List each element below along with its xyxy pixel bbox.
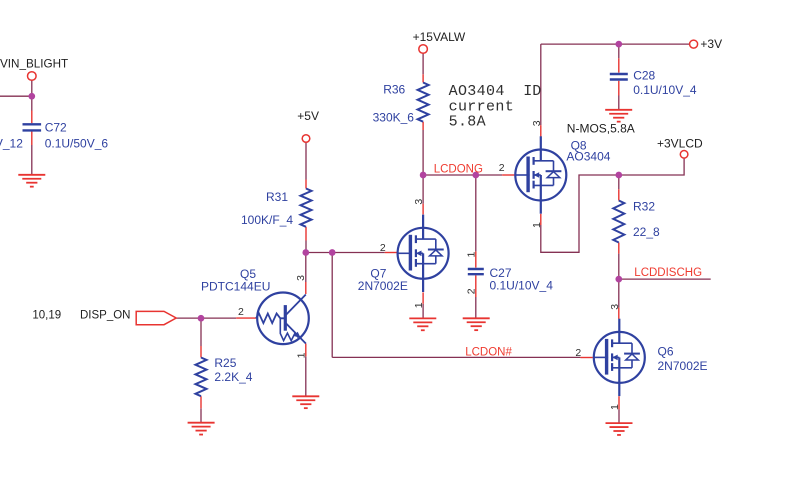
label 10,19 (32, 310, 61, 322)
pin stub Q6 drain pin 3 (618, 308, 620, 319)
ground at Q5 emitter (292, 396, 319, 408)
note current (449, 99, 514, 116)
wire +3V junction to C28 (618, 44, 620, 58)
pin stub R31-1 (305, 180, 307, 189)
label Q6 (658, 345, 674, 359)
svg-text:C72: C72 (45, 120, 67, 134)
wire LCDDISCHG node to Q6 drain (618, 279, 620, 308)
svg-text:2: 2 (499, 162, 505, 174)
svg-text:1: 1 (609, 404, 621, 410)
wire Q8 drain up to +3V rail (540, 44, 542, 125)
capacitor C28 (610, 74, 628, 80)
wire LCDON# horizontal to Q6 gate (332, 356, 580, 358)
pin 3 of Q8 (531, 120, 543, 126)
resistor R25 (196, 358, 207, 397)
svg-text:N-MOS,5.8A: N-MOS,5.8A (567, 122, 635, 136)
value 100K/F_4 (241, 213, 293, 227)
value 330K_6 (373, 110, 415, 124)
wire Q6 source to ground (618, 409, 620, 423)
transistor Q7 (N-MOSFET) (397, 215, 449, 292)
svg-text:+15VALW: +15VALW (413, 30, 466, 44)
pin stub Q7 gate pin 2 (385, 252, 398, 254)
svg-text:0.1U/10V_4: 0.1U/10V_4 (633, 83, 697, 97)
wire LCDONG node to Q7 drain (422, 175, 424, 204)
pin 1 of Q6 (609, 404, 621, 410)
pin 2 of Q8 (499, 162, 505, 174)
svg-text:LCDDISCHG: LCDDISCHG (634, 267, 702, 279)
wire DISP_ON connector to junction (176, 317, 236, 319)
wire Q5 collector up to node (305, 253, 307, 283)
label C72 (45, 120, 67, 134)
svg-text:2: 2 (575, 347, 581, 359)
label R36 (383, 83, 405, 97)
svg-text:PDTC144EU: PDTC144EU (201, 280, 270, 294)
label R31 (266, 190, 288, 204)
svg-text:R36: R36 (383, 83, 405, 97)
svg-text:10,19: 10,19 (32, 310, 61, 322)
svg-text:R32: R32 (633, 200, 655, 214)
wire C28 to ground (618, 96, 620, 110)
svg-text:R31: R31 (266, 190, 288, 204)
svg-text:1: 1 (413, 302, 425, 308)
ground at Q7 source (409, 318, 436, 330)
svg-text:1: 1 (295, 352, 307, 358)
wire LCDDISCHG stub (619, 278, 711, 280)
note 5.8A (449, 114, 486, 131)
pin stub Q8 gate pin 2 (502, 174, 514, 176)
svg-text:DISP_ON: DISP_ON (80, 309, 131, 321)
wire C27 to ground (475, 297, 477, 318)
node +3VLCD junction (615, 172, 622, 179)
wire R25 to ground (200, 408, 202, 422)
svg-text:0.1U/50V_6: 0.1U/50V_6 (45, 137, 109, 151)
pin stub R25-2 (200, 396, 202, 408)
pin stub Q7 drain pin 3 (422, 204, 424, 215)
pin stub Q6 source pin 1 (618, 396, 620, 409)
node VIN_BLIGHT junction (28, 93, 35, 100)
wire R31 to node row (305, 241, 307, 253)
pin stub Q6 gate pin 2 (580, 357, 592, 359)
pin 1 of C27 (465, 252, 477, 258)
svg-text:2: 2 (238, 306, 244, 318)
value 22_8 (633, 225, 660, 239)
value V_12 (clipped) (0, 137, 23, 151)
pin stub R36-1 (422, 74, 424, 82)
wire junction to C72 top (31, 96, 33, 110)
svg-text:3: 3 (609, 304, 621, 310)
label +5V (297, 109, 319, 123)
svg-text:LCDONG: LCDONG (434, 163, 483, 175)
wire VIN_BLIGHT net to left edge (0, 95, 32, 97)
svg-text:2.2K_4: 2.2K_4 (214, 370, 252, 384)
node DISP_ON junction (198, 315, 205, 322)
pin stub C72-2 (31, 132, 33, 146)
svg-text:AO3404: AO3404 (449, 83, 505, 100)
svg-text:C28: C28 (633, 68, 655, 82)
wire +3VLCD node to R32 (618, 175, 620, 189)
svg-text:AO3404: AO3404 (566, 149, 610, 163)
svg-text:22_8: 22_8 (633, 225, 660, 239)
net label LCDON# (465, 346, 512, 358)
node LCDON# junction (329, 249, 336, 256)
pin stub Q5 collector pin 3 (305, 282, 307, 294)
svg-text:3: 3 (413, 199, 425, 205)
svg-text:2: 2 (465, 288, 477, 294)
node LCDDISCHG junction (615, 276, 622, 283)
connector DISP_ON port (136, 311, 176, 324)
value C27 0.1U/10V_4 (490, 278, 554, 292)
wire LCDON# vertical (331, 253, 333, 358)
svg-text:LCDON#: LCDON# (465, 346, 512, 358)
pin 3 of Q6 (609, 304, 621, 310)
transistor Q8 (N-MOSFET) (515, 136, 567, 213)
pin stub R31-2 (305, 227, 307, 241)
pin stub C28-2 (618, 81, 620, 96)
ground at C27 (463, 318, 490, 330)
wire R36 to LCDONG node (422, 130, 424, 175)
svg-text:R25: R25 (214, 356, 236, 370)
pin stub Q5 base pin 2 (236, 317, 256, 319)
label DISP_ON (80, 309, 131, 321)
ground at C28 (605, 110, 632, 122)
svg-text:ID: ID (523, 83, 541, 100)
pin 1 of Q5 (295, 352, 307, 358)
svg-text:0.1U/16V_12: 0.1U/16V_12 (0, 137, 23, 151)
wire junction to R25 (200, 318, 202, 346)
transistor Q5 (pre-biased NPN) (256, 293, 309, 345)
svg-text:2N7002E: 2N7002E (358, 279, 408, 293)
pin 1 of Q7 (413, 302, 425, 308)
label R32 (633, 200, 655, 214)
label Q8 (571, 139, 587, 153)
wire C72 bottom to ground (31, 145, 33, 175)
pin stub C27-2 (475, 275, 477, 297)
svg-text:1: 1 (531, 222, 543, 228)
wire R32 to LCDDISCHG node (618, 254, 620, 280)
label R25 (214, 356, 236, 370)
label +15VALW (413, 30, 466, 44)
node +3V junction (615, 41, 622, 48)
ground at C72 (18, 175, 45, 187)
value Q8 AO3404 (566, 149, 610, 163)
wire +3V rail horizontal (541, 43, 690, 45)
pin 3 of Q7 (413, 199, 425, 205)
svg-text:330K_6: 330K_6 (373, 110, 415, 124)
label +3V (700, 37, 722, 51)
pin 2 of Q5 (238, 306, 244, 318)
power +3V (690, 40, 698, 48)
node LCDONG junction 1 (420, 172, 427, 179)
label VIN_BLIGHT (0, 58, 68, 71)
net label LCDDISCHG (634, 267, 702, 279)
svg-text:5.8A: 5.8A (449, 114, 486, 131)
power +3VLCD (680, 151, 688, 159)
svg-text:100K/F_4: 100K/F_4 (241, 213, 293, 227)
pin stub Q5 emitter pin 1 (305, 344, 307, 357)
pin 2 of C27 (465, 288, 477, 294)
pin stub C28-1 (618, 58, 620, 72)
svg-text:1: 1 (465, 252, 477, 258)
wire Q8 source to +3VLCD rail (541, 158, 684, 252)
svg-text:0.1U/10V_4: 0.1U/10V_4 (490, 278, 554, 292)
note AO3404 (449, 83, 505, 100)
svg-text:+3VLCD: +3VLCD (657, 136, 703, 150)
ground at R25 (188, 423, 215, 435)
capacitor C72 (23, 124, 42, 130)
node R31 junction (302, 249, 309, 256)
capacitor C27 (468, 269, 484, 274)
pin 3 of Q5 (295, 275, 307, 281)
label N-MOS,5.8A (567, 122, 635, 136)
pin stub C27-1 (475, 251, 477, 267)
wire LCDONG node to C27 (475, 175, 477, 251)
resistor R31 (301, 189, 312, 227)
svg-text:VIN_BLIGHT: VIN_BLIGHT (0, 58, 68, 71)
pin 2 of Q7 (380, 242, 386, 254)
label Q5 (240, 267, 256, 281)
value C28 0.1U/10V_4 (633, 83, 697, 97)
resistor R36 (418, 83, 429, 122)
power +15VALW (419, 45, 428, 54)
wire +5V to R31 (305, 142, 307, 179)
wire from VIN_BLIGHT power to junction (31, 80, 33, 96)
pin 1 of Q8 (531, 222, 543, 228)
node LCDONG junction 2 (472, 172, 479, 179)
pin stub R32-1 (618, 189, 620, 200)
label +3VLCD (657, 136, 703, 150)
pin stub Q8 drain pin 3 (540, 125, 542, 136)
pin stub Q8 source pin 1 (540, 214, 542, 225)
wire Q5 emitter to ground (305, 356, 307, 396)
wire LCDONG horizontal (423, 174, 502, 176)
wire +15VALW to R36 (422, 53, 424, 74)
power VIN_BLIGHT (28, 72, 37, 81)
wire node row to Q7 gate (306, 252, 385, 254)
transistor Q6 (N-MOSFET) (593, 319, 645, 396)
svg-text:3: 3 (295, 275, 307, 281)
pin stub R36-2 (422, 122, 424, 130)
svg-text:2: 2 (380, 242, 386, 254)
svg-text:3: 3 (531, 120, 543, 126)
power +5V (302, 135, 310, 143)
note ID (523, 83, 541, 100)
svg-text:Q6: Q6 (658, 345, 674, 359)
pin stub R25-1 (200, 346, 202, 358)
label C27 (490, 266, 512, 280)
svg-text:+5V: +5V (297, 109, 319, 123)
svg-text:+3V: +3V (700, 37, 722, 51)
ground at Q6 source (606, 423, 633, 435)
resistor R32 (613, 201, 624, 243)
pin stub Q7 source pin 1 (422, 292, 424, 303)
value 2.2K_4 (214, 370, 252, 384)
label C28 (633, 68, 655, 82)
pin stub R32-2 (618, 243, 620, 254)
pin 2 of Q6 (575, 347, 581, 359)
label Q7 (370, 266, 386, 280)
svg-text:2N7002E: 2N7002E (658, 359, 708, 373)
value Q6 2N7002E (658, 359, 708, 373)
value Q7 2N7002E (358, 279, 408, 293)
net label LCDONG (434, 163, 483, 175)
wire Q7 source to ground (422, 304, 424, 319)
value PDTC144EU (201, 280, 270, 294)
value 0.1U/50V_6 (45, 137, 109, 151)
pin stub C72-1 (31, 111, 33, 124)
